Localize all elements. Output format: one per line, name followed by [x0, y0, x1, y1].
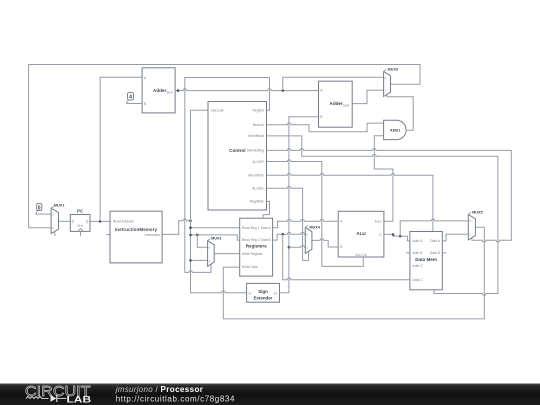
svg-text:Processor: Processor: [161, 385, 203, 394]
node: ALU result jog: [392, 233, 395, 236]
instruction memory: [110, 211, 162, 263]
wire: PC output up to Adder1 A: [100, 77, 142, 221]
svg-text:MemWrite: MemWrite: [248, 174, 263, 178]
node: sign-extend tap to MUX4 in1: [288, 246, 291, 249]
wire: PC+4 up and right to MUX3 input 0: [283, 77, 384, 90]
wire: MUX4 output to ALU B, hop at x=321.8: [312, 239, 338, 247]
svg-text:MUX4: MUX4: [309, 225, 320, 229]
wire: Adder1 Sum (PC+4) to Adder2 A, hops at x=184.8 and x=269.5: [175, 89, 318, 91]
svg-text:Data C: Data C: [412, 278, 423, 282]
svg-text:RegDst: RegDst: [252, 109, 263, 113]
svg-text:MemtoReg: MemtoReg: [247, 149, 264, 153]
svg-text:ALUSrc: ALUSrc: [252, 187, 264, 191]
wire: MemRead control to Data Mem bottom enable, hops at x=374.3 and x=484.3: [267, 136, 498, 295]
and gate AND1: [384, 120, 407, 139]
svg-text:Sum: Sum: [343, 103, 350, 107]
wire: Adder2 Sum to MUX3 input 1: [352, 90, 383, 103]
node: Data B branch to Data Mem: [281, 233, 284, 236]
svg-text:Data A: Data A: [261, 226, 272, 230]
mux MUX2 (write register select): [208, 236, 222, 266]
wire: MUX3 select from AND1 output: [387, 95, 413, 131]
constant flag 4: [126, 92, 133, 103]
wire: tap down to MUX2 input 0: [197, 235, 207, 247]
wire: ALU result to MUX5 input 0, hop at x=432.9: [400, 219, 468, 236]
svg-text:Adder: Adder: [153, 88, 166, 93]
svg-text:Addr B: Addr B: [412, 251, 423, 255]
wire: MemWrite control to Data Mem top enable, hops at 289.1, 321.8, 394.8: [267, 173, 433, 231]
wire: spine to Registers Read Reg 1: [191, 227, 240, 229]
wire: spine to Registers Read Reg 2: [191, 235, 240, 240]
svg-text:RegWrite: RegWrite: [250, 200, 264, 204]
wire: Sign Extender Ex up to Adder2 B: [280, 117, 319, 293]
mux MUX5 (mem to reg select): [468, 210, 482, 240]
node: Read Reg 2 tap: [189, 234, 192, 237]
svg-text:AND1: AND1: [390, 129, 400, 133]
wire: RegDst control to MUX2 select, hop at spine: [185, 78, 270, 273]
control unit: [208, 102, 267, 211]
svg-text:Addr A: Addr A: [412, 239, 423, 243]
svg-text:CLK: CLK: [77, 224, 84, 228]
node: ALU result branch to MUX5: [399, 235, 402, 238]
svg-text:MemRead: MemRead: [248, 134, 264, 138]
svg-text:LAB: LAB: [67, 394, 92, 405]
adder U1 (PC+4): [142, 68, 175, 113]
registers file: [240, 218, 273, 276]
svg-text:ALU Ctl: ALU Ctl: [356, 253, 367, 257]
svg-text:Ex: Ex: [274, 291, 278, 295]
svg-text:Data B: Data B: [261, 238, 272, 242]
svg-text:Registers: Registers: [246, 243, 267, 248]
wire: ALUSrc control to MUX4 select, hop at x=289.1: [267, 187, 309, 261]
svg-text:4: 4: [129, 95, 132, 101]
svg-text:Read Reg 1: Read Reg 1: [242, 226, 260, 230]
svg-text:Adder: Adder: [330, 101, 343, 106]
svg-text:PC: PC: [77, 208, 83, 213]
PC register: [70, 208, 90, 236]
svg-text:Instruction: Instruction: [145, 233, 161, 237]
wire: Branch control to AND1 input 1, hop at x=289.1: [267, 123, 384, 132]
wire: MUX2 output to Write Register: [214, 253, 240, 255]
svg-text:InstructionMemory: InstructionMemory: [115, 227, 158, 232]
wire: constant 4 to Adder1 B: [126, 103, 142, 105]
wire: PC Q to InstructionMemory Read Address: [90, 220, 110, 222]
svg-text:MUX5: MUX5: [472, 210, 483, 214]
svg-text:Addr C: Addr C: [412, 264, 423, 268]
svg-text:Zero: Zero: [375, 220, 382, 224]
mux MUX1 (PC source): [51, 204, 64, 236]
wire: MUX5 output to Registers Write Data (bottom return): [223, 227, 484, 319]
svg-text:Control: Control: [229, 148, 245, 153]
ALU: [338, 211, 384, 257]
wire: Sign Extender In feed, hop at x=223.3: [191, 291, 247, 293]
data memory: [410, 232, 442, 290]
wire: Instruction output jog to bus spine, hop at x=184.8: [162, 219, 190, 235]
wire: MUX3 output feedback to MUX1 input 1: [29, 65, 420, 228]
wire: Instruction Memory unused stub: [106, 234, 110, 236]
svg-text:Extender: Extender: [254, 296, 273, 301]
svg-text:ALU: ALU: [356, 231, 366, 236]
wire: constant 0 to MUX1 input 0: [36, 213, 52, 215]
svg-text:In: In: [249, 291, 252, 295]
constant flag 0: [36, 204, 42, 215]
svg-text:0: 0: [38, 206, 41, 212]
svg-text:Branch: Branch: [253, 123, 264, 127]
waveform + diode glyph: [26, 397, 49, 399]
mux MUX3 (PC branch select): [384, 67, 399, 96]
svg-text:MUX3: MUX3: [388, 67, 399, 71]
svg-text:MUX1: MUX1: [54, 204, 65, 208]
svg-text:Data Mem: Data Mem: [415, 257, 437, 262]
wire: ALU Zero to AND1 input 2: [374, 136, 393, 222]
node: Read Reg 1 tap: [189, 226, 192, 229]
wire: ALUOP control to ALU Ctl, hop at x=289.1: [267, 160, 364, 267]
node: PC+4 junction at adder output: [177, 89, 180, 92]
wire: Registers Data B to MUX4 input 0, hops at 289.1, 302.6: [273, 232, 306, 240]
svg-text:MUX2: MUX2: [211, 236, 222, 240]
wire: Registers Data A to ALU A, hops at 289.1, 302.6, 321.8: [273, 220, 339, 228]
footer bar: [0, 383, 540, 405]
node: MUX2 in0 tap: [196, 234, 199, 237]
wire: Data Mem Data A to MUX5 input 1: [442, 234, 468, 241]
wire: Data Mem Data B stub: [442, 252, 446, 254]
wire: Data Mem Addr B stub: [406, 252, 410, 254]
sign extender: [247, 283, 280, 302]
svg-text:Read Reg 2: Read Reg 2: [242, 238, 260, 242]
svg-text:Write Register: Write Register: [242, 252, 264, 256]
wire: ALU O to Data Mem Addr A: [384, 234, 410, 241]
mux MUX4 (ALU source): [305, 225, 321, 253]
wire: spine to MUX2 input 1: [191, 259, 208, 261]
node: MUX2 in1 tap: [189, 259, 192, 262]
svg-text:Sign: Sign: [258, 289, 268, 294]
node: spine feed junction: [189, 219, 192, 222]
wire: MUX1 output to PC D: [59, 220, 71, 222]
wire: instruction bus spine, up to Control OpCode, down to Sign Extender In: [191, 110, 209, 292]
svg-text:Read Address: Read Address: [113, 219, 135, 223]
svg-text:Q: Q: [86, 220, 89, 224]
svg-text:Data B: Data B: [430, 251, 441, 255]
svg-text:jmsurjono: jmsurjono: [115, 385, 154, 394]
svg-text:http://circuitlab.com/c78g834: http://circuitlab.com/c78g834: [116, 395, 235, 404]
wire: MemtoReg control to MUX5 select, hops at 289.1, 301.8, 374.3, then 497.9, 484.3: [267, 149, 512, 243]
wire: RegWrite control to Registers top: [263, 201, 269, 218]
svg-text:Write Data: Write Data: [242, 265, 258, 269]
adder U2 (branch target): [319, 81, 353, 127]
svg-text:ALUOP: ALUOP: [252, 160, 264, 164]
wire: Data B down and right to Data Mem Data C, hop at x=289.1: [283, 234, 410, 280]
svg-text:Data A: Data A: [430, 239, 441, 243]
node: PC output junction: [99, 220, 102, 223]
svg-text:O: O: [379, 233, 382, 237]
svg-text:Sum: Sum: [166, 90, 173, 94]
wire: sign-extend to MUX4 input 1, hop at x=302.6: [289, 245, 305, 247]
svg-text:OpCode: OpCode: [211, 109, 224, 113]
node: PC+4 branch to MUX3: [282, 89, 285, 92]
